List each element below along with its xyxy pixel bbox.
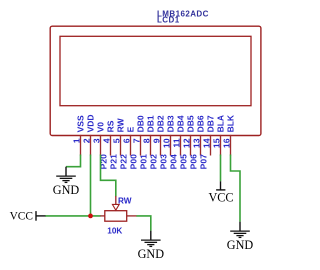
svg-text:DB5: DB5 [185,115,195,132]
svg-text:LCD1: LCD1 [157,16,180,25]
svg-text:10K: 10K [107,227,122,236]
potentiometer RW body [105,211,127,222]
svg-text:BLA: BLA [215,115,225,132]
pin name DB4 [175,115,185,132]
pin number 16 [221,138,231,148]
pin name VSS [75,115,85,132]
pin number 15 [211,138,221,148]
net label P03 on pin 10 [159,154,169,169]
pin name E [125,126,135,132]
pin number 3 [91,138,101,143]
net label P04 on pin 11 [169,154,179,169]
svg-text:13: 13 [191,138,201,148]
net label P06 on pin 13 [189,154,199,169]
pin number 4 [101,138,111,143]
pin 8 (DB1) stub [150,135,152,156]
wire: pot right terminal right and down to ground [136,216,151,231]
net label P20 on pin 4 [99,154,109,169]
svg-text:1: 1 [71,138,81,143]
pin 14 (DB7) stub [210,135,212,156]
pin 3 (V0) stub [100,135,102,156]
svg-text:9: 9 [151,138,161,143]
wire: pin 3 V0 down, right, down to potentiometer wiper [101,155,116,197]
svg-text:P01: P01 [139,154,149,169]
svg-text:P02: P02 [149,154,159,169]
junction dot: VCC net junction at pin 2 [88,214,93,219]
svg-text:8: 8 [141,138,151,143]
svg-text:VDD: VDD [85,114,95,132]
svg-text:VCC: VCC [10,210,33,222]
svg-text:DB2: DB2 [155,115,165,132]
svg-text:RS: RS [105,120,115,132]
svg-text:P05: P05 [179,154,189,169]
svg-text:DB1: DB1 [145,115,155,132]
svg-text:12: 12 [181,138,191,148]
pin name RW [115,117,125,132]
pin 7 (DB0) stub [140,135,142,156]
label RW of potentiometer [118,197,132,206]
svg-text:DB7: DB7 [205,115,215,132]
pin 10 (DB3) stub [170,135,172,156]
svg-text:2: 2 [81,138,91,143]
ground symbol GND (left, at pin 1 VSS) [53,167,80,197]
svg-text:VSS: VSS [75,115,85,132]
pin name RS [105,120,115,132]
svg-text:RW: RW [115,117,125,132]
pin name VDD [85,114,95,132]
reference designator LCD1 [157,16,180,25]
pin name DB3 [165,115,175,132]
pin 16 (BLK) stub [230,135,232,156]
pin number 7 [131,138,141,143]
svg-text:GND: GND [227,238,254,252]
svg-text:V0: V0 [95,122,105,133]
pin number 12 [181,138,191,148]
svg-text:BLK: BLK [225,114,235,132]
potentiometer RV1 left lead stub [100,215,105,217]
pin name DB6 [195,115,205,132]
wire: VCC terminal to junction and pot left terminal [45,215,101,217]
net label P00 on pin 7 [129,154,139,169]
pin name DB0 [135,115,145,132]
svg-text:P07: P07 [199,154,209,169]
wire: pin 1 VSS down and left to ground [66,155,81,167]
ground symbol GND (bottom right, at pin 16 BLK) [227,222,254,252]
pin 4 (RS) stub [110,135,112,156]
value label LMB162ADC [157,9,209,18]
pin 11 (DB4) stub [180,135,182,156]
pin number 14 [201,138,211,148]
svg-text:RW: RW [118,197,132,206]
svg-text:7: 7 [131,138,141,143]
power symbol VCC (right, at pin 15 BLA) [208,181,233,204]
pin 15 (BLA) stub [220,135,222,156]
svg-text:15: 15 [211,138,221,148]
svg-text:GND: GND [138,247,165,261]
pin number 11 [171,138,181,147]
pin number 6 [121,138,131,143]
svg-text:P00: P00 [129,154,139,169]
svg-text:VCC: VCC [208,190,233,204]
wire: pin 2 VDD down to VCC rail junction [90,155,92,216]
pin number 2 [81,138,91,143]
net label P01 on pin 8 [139,154,149,169]
net label P05 on pin 12 [179,154,189,169]
value label 10K of potentiometer [107,227,122,236]
pin number 8 [141,138,151,143]
pin name BLK [225,114,235,132]
svg-text:E: E [125,126,135,132]
svg-text:11: 11 [171,138,181,147]
svg-text:GND: GND [53,183,80,197]
svg-text:DB3: DB3 [165,115,175,132]
net label P02 on pin 9 [149,154,159,169]
pin name DB1 [145,115,155,132]
pin name DB2 [155,115,165,132]
svg-text:P03: P03 [159,154,169,169]
pin 9 (DB2) stub [160,135,162,156]
pin name DB7 [205,115,215,132]
pin number 13 [191,138,201,148]
potentiometer RW wiper arrow [112,196,119,210]
svg-text:6: 6 [121,138,131,143]
svg-text:P06: P06 [189,154,199,169]
pin 2 (VDD) stub [90,135,92,156]
svg-text:P04: P04 [169,154,179,169]
svg-text:DB4: DB4 [175,115,185,132]
pin number 10 [161,138,171,148]
pin 12 (DB5) stub [190,135,192,156]
pin number 1 [71,138,81,143]
svg-text:10: 10 [161,138,171,148]
pin 1 (VSS) stub [80,135,82,156]
wire: pin 16 BLK down, right, down to ground [231,155,241,222]
ground symbol GND (bottom centre, at pot right terminal) [138,231,165,261]
pin 5 (RW) stub [120,135,122,156]
LCD display window: inner box of LCD1 [60,36,251,105]
power terminal VCC (left) [10,210,46,222]
pin name DB5 [185,115,195,132]
pin 6 (E) stub [130,135,132,156]
wire: pin 15 BLA down to VCC power symbol [220,155,222,182]
pin 13 (DB6) stub [200,135,202,156]
pin name BLA [215,115,225,132]
svg-text:P22: P22 [119,154,129,169]
svg-text:DB6: DB6 [195,115,205,132]
svg-text:DB0: DB0 [135,115,145,132]
pin number 9 [151,138,161,143]
svg-text:P21: P21 [109,154,119,169]
net label P07 on pin 14 [199,154,209,169]
pin number 5 [111,138,121,143]
LCD module U-shape: outer body box of LCD1 [50,26,261,135]
svg-text:5: 5 [111,138,121,143]
svg-text:16: 16 [221,138,231,148]
pin name V0 [95,122,105,133]
net label P21 on pin 5 [109,154,119,169]
svg-text:4: 4 [101,138,111,143]
potentiometer RV1 right lead stub [127,215,137,217]
svg-text:3: 3 [91,138,101,143]
svg-text:14: 14 [201,138,211,148]
net label P22 on pin 6 [119,154,129,169]
